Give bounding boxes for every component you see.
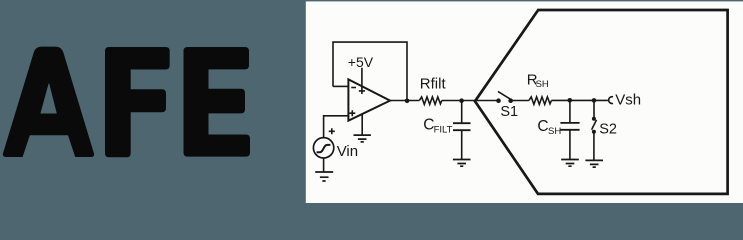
svg-text:Vsh: Vsh xyxy=(615,92,641,109)
switch S2 top stub xyxy=(593,100,595,117)
op-amp V+ supply pin with + mark xyxy=(359,68,365,94)
svg-text:+5V: +5V xyxy=(348,54,374,70)
node: feedback junction xyxy=(405,99,410,104)
switch S2 bottom stub xyxy=(593,132,595,161)
capacitor CFILT bottom lead xyxy=(461,130,463,159)
capacitor CSH bottom lead xyxy=(569,130,571,160)
switch S1 lever xyxy=(498,91,511,99)
switch S2 lever xyxy=(592,120,597,130)
wire: RSH to Vsh terminal xyxy=(552,99,608,101)
AFE logo letter A xyxy=(3,47,94,157)
source Vin circle xyxy=(313,138,333,158)
svg-text:C: C xyxy=(537,118,548,135)
switch S1 contact node left xyxy=(496,98,501,103)
capacitor CFILT top lead xyxy=(461,101,463,124)
svg-text:S2: S2 xyxy=(599,121,617,137)
switch S2 bottom contact xyxy=(592,130,596,134)
ground (CSH) xyxy=(561,160,579,167)
wire: inverting input xyxy=(333,85,348,87)
wire Vin to non-inverting input xyxy=(324,116,349,138)
switch S2 top contact xyxy=(592,117,596,121)
ground (op-amp) xyxy=(354,135,371,142)
svg-text:Rfilt: Rfilt xyxy=(420,76,447,93)
node: CSH junction xyxy=(568,98,573,103)
white schematic panel xyxy=(306,1,743,203)
op-amp V- pin stub xyxy=(361,114,363,135)
op-amp U1 xyxy=(348,79,390,120)
AFE logo letter E xyxy=(184,47,251,157)
capacitor CSH top lead xyxy=(569,100,571,123)
wire: S1 to RSH xyxy=(511,100,529,102)
feedback wire (output to inverting input) xyxy=(333,42,407,100)
resistor Rfilt xyxy=(419,97,441,105)
op-amp inverting label - xyxy=(351,87,356,89)
source polarity + mark xyxy=(329,128,335,134)
node: S2 junction xyxy=(592,98,597,103)
node: filter node xyxy=(459,98,464,103)
ground (CFILT) xyxy=(453,160,471,167)
svg-text:S1: S1 xyxy=(500,104,518,120)
svg-text:SH: SH xyxy=(548,126,561,137)
capacitor CSH plates xyxy=(560,123,579,130)
source Vin bottom stub xyxy=(323,158,325,172)
switch S1 contact node right xyxy=(508,98,513,103)
ground (Vin) xyxy=(315,172,333,181)
op-amp non-inverting label + xyxy=(349,110,355,116)
svg-text:SH: SH xyxy=(536,79,549,90)
svg-text:FILT: FILT xyxy=(434,124,453,135)
resistor RSH xyxy=(529,97,552,105)
ground (S2) xyxy=(585,160,603,167)
wire: op-amp output xyxy=(390,100,419,102)
source Vin waveform xyxy=(317,145,331,152)
capacitor CFILT plates xyxy=(453,123,471,130)
ADC input chevron polygon xyxy=(475,10,728,194)
wire: Rfilt to S1 xyxy=(442,100,498,102)
AFE logo letter F xyxy=(105,47,170,157)
terminal Vsh open contact xyxy=(609,97,613,104)
svg-text:Vin: Vin xyxy=(337,143,358,160)
